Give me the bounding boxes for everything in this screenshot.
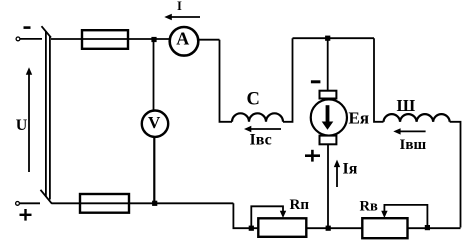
svg-text:V: V	[148, 113, 161, 132]
voltmeter branch wire upper	[153, 39, 155, 111]
svg-text:A: A	[176, 29, 189, 49]
supply bus line left	[45, 31, 47, 197]
wire top bus right corner down to shunt coil	[374, 38, 384, 122]
svg-text:I: I	[177, 0, 182, 13]
junction node below armature	[326, 226, 331, 231]
ammeter A	[170, 27, 199, 56]
brush top	[320, 91, 337, 99]
fuse F2	[80, 194, 129, 213]
wire switch to fuse F1 and through to ammeter	[51, 38, 171, 40]
svg-text:Iя: Iя	[343, 161, 358, 178]
label Івс with arrow (series winding current)	[244, 126, 281, 149]
wire corner down and bottom bus	[233, 203, 460, 228]
brush bottom	[320, 136, 337, 145]
svg-text:U: U	[16, 117, 28, 134]
rheostat Rп (starting rheostat)	[258, 218, 306, 237]
label minus (armature polarity)	[311, 80, 321, 83]
wire down to armature top brush	[327, 38, 329, 90]
wire ammeter to series branch corner	[198, 39, 220, 41]
junction node left of Rп	[249, 226, 254, 231]
motor armature M circle	[311, 99, 347, 135]
rheostat Rп slider with arrow	[251, 206, 286, 228]
wire T2 to switch bottom	[20, 202, 41, 204]
junction node above armature	[325, 36, 330, 41]
terminal T2 (positive supply)	[16, 202, 20, 206]
wire top bus	[293, 37, 375, 39]
rheostat Rв slider with arrow	[381, 205, 427, 228]
voltmeter V	[142, 111, 168, 137]
svg-text:Івш: Івш	[400, 137, 427, 153]
rheostat Rв (field rheostat)	[362, 218, 407, 238]
wire shunt coil right down to bottom bus	[450, 122, 461, 228]
knife switch S top blade	[42, 26, 52, 37]
wire armature bottom brush down to bottom bus	[327, 144, 329, 228]
wire switch through fuse F2 to corner	[52, 202, 234, 204]
knife switch S bottom blade	[41, 190, 52, 204]
svg-text:Rв: Rв	[360, 198, 378, 214]
label U with arrow (supply voltage)	[16, 67, 32, 172]
junction node bottom (voltmeter tap)	[152, 201, 157, 206]
svg-text:C: C	[247, 90, 260, 110]
label Iя with arrow (armature current)	[334, 160, 358, 187]
label I with arrow (line current)	[164, 0, 200, 20]
svg-text:Ея: Ея	[349, 109, 370, 128]
label minus (supply polarity)	[24, 26, 31, 29]
junction node right of Rв	[425, 225, 430, 230]
armature arrow (EMF direction)	[322, 105, 334, 130]
label plus (armature polarity)	[305, 150, 320, 162]
svg-text:Rп: Rп	[290, 197, 310, 213]
terminal T1 (negative supply)	[16, 37, 20, 41]
label Івш with arrow (shunt winding current)	[393, 128, 426, 153]
wire coil C up to top bus	[283, 38, 293, 122]
wire corner down to coil C	[220, 40, 233, 122]
label plus (supply polarity)	[20, 209, 32, 221]
svg-text:Ш: Ш	[397, 96, 416, 115]
supply bus line right	[49, 36, 51, 200]
inductor C (series winding)	[232, 113, 283, 122]
voltmeter branch wire lower	[153, 137, 155, 203]
junction node top (voltmeter tap)	[151, 37, 156, 42]
inductor Ш (shunt winding)	[384, 114, 450, 122]
fuse F1	[82, 30, 128, 49]
wire from T1 to switch	[20, 38, 42, 40]
svg-text:Івс: Івс	[250, 132, 272, 149]
